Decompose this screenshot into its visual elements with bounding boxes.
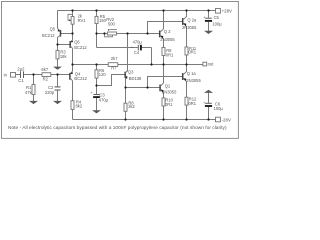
junction rail-R8	[124, 118, 126, 120]
svg-text:2k2: 2k2	[128, 104, 135, 109]
wire C3 top	[96, 86, 98, 95]
transistor Q5	[60, 30, 62, 37]
junction rail-C5	[207, 9, 209, 11]
svg-text:18k: 18k	[60, 54, 68, 59]
wire Q1a collector	[186, 65, 188, 73]
junction rail-Q2 collector	[162, 9, 164, 11]
junction R6-C3	[95, 84, 97, 86]
junction output node-R11/Q1a	[185, 63, 187, 65]
wire Q2a emitter to R11	[186, 26, 188, 47]
svg-text:Q 1a: Q 1a	[187, 71, 197, 76]
wire R5 bottom	[96, 24, 98, 34]
wire Q3 emitter to Q1 base	[126, 87, 161, 89]
wire C2 ground stem	[57, 91, 59, 102]
junction node C (RV2/Q3 collector/Q2 base)	[126, 32, 128, 34]
terminal +28V	[216, 9, 221, 14]
wire node to RV2	[97, 33, 108, 35]
ground C5	[204, 31, 213, 34]
wire R8 drop	[125, 88, 127, 104]
wire R1 ground stem	[33, 95, 35, 102]
svg-text:2N3055: 2N3055	[160, 37, 175, 42]
svg-text:470µ: 470µ	[133, 39, 143, 44]
svg-text:Q1: Q1	[165, 84, 171, 89]
junction output node-R9/Q1	[162, 63, 164, 65]
terminal In	[11, 73, 16, 78]
svg-text:Q6: Q6	[74, 40, 80, 45]
svg-text:0R1: 0R1	[189, 50, 197, 55]
resistor R1	[32, 85, 35, 95]
resistor R3	[56, 50, 59, 59]
transistor Q6	[69, 41, 71, 48]
svg-text:C1: C1	[18, 78, 24, 83]
wire R1 drop	[33, 75, 35, 85]
transistor Q2a	[182, 18, 184, 25]
wire Q5 emitter from rail	[57, 11, 59, 29]
wire RV1 top	[72, 11, 74, 17]
wire input line	[16, 74, 21, 76]
wire R12 bottom	[186, 105, 188, 120]
ground R1	[29, 101, 38, 104]
svg-text:BC212: BC212	[74, 45, 87, 50]
junction node B (R5/RV2/C4)	[95, 32, 97, 34]
wire -28V bottom rail	[73, 119, 216, 121]
wire C5 ground stem	[208, 22, 210, 31]
wire Q6 base line	[58, 44, 70, 46]
wire Q6 emitter	[72, 34, 74, 40]
junction rail-RV1	[71, 9, 73, 11]
wire R11 bottom	[186, 55, 188, 65]
resistor R6	[95, 70, 98, 78]
ground above C6	[204, 90, 213, 93]
svg-text:Q 2: Q 2	[164, 29, 171, 34]
capacitor C2	[55, 86, 61, 88]
junction node C-Q2a branch	[146, 32, 148, 34]
svg-text:2µ2: 2µ2	[17, 66, 25, 71]
svg-text:0R1: 0R1	[189, 101, 197, 106]
junction rail-R5	[95, 9, 97, 11]
junction node A (RV1/Q5/Q6)	[71, 32, 73, 34]
wire Q1a emitter to R12	[186, 81, 188, 97]
svg-text:0R1: 0R1	[165, 102, 173, 107]
wire Q1a base branch	[148, 77, 183, 88]
svg-text:BC212: BC212	[74, 76, 87, 81]
ground C2	[53, 101, 62, 104]
wire C4 left segment	[97, 47, 138, 49]
svg-text:+28V: +28V	[222, 9, 232, 14]
svg-text:C5: C5	[214, 15, 220, 20]
junction rail-C6	[207, 118, 209, 120]
junction Q5 collector-R3-Q6 base	[56, 43, 58, 45]
wire output line	[73, 64, 203, 66]
svg-text:Q5: Q5	[50, 26, 56, 31]
wire C2 drop	[57, 75, 59, 87]
wire R8 bottom	[125, 111, 127, 119]
svg-text:BC212: BC212	[42, 33, 55, 38]
svg-text:C4: C4	[134, 50, 140, 55]
resistor R4	[71, 101, 74, 110]
wire Q3 collector column	[127, 34, 129, 72]
resistor R11	[185, 47, 188, 55]
wire Q2 collector	[163, 11, 165, 30]
terminal out	[203, 62, 207, 66]
wire Q5 collector	[57, 37, 59, 44]
wire Q4 collector	[72, 81, 74, 101]
resistor R2	[42, 73, 51, 77]
svg-text:-28V: -28V	[222, 117, 231, 122]
resistor R7	[108, 63, 118, 67]
svg-text:500: 500	[108, 22, 116, 27]
svg-text:220p: 220p	[45, 90, 55, 95]
wire R9 bottom	[163, 56, 165, 65]
wire +28V top rail	[58, 10, 216, 12]
junction rail-R10	[162, 118, 164, 120]
capacitor C3	[93, 94, 99, 96]
svg-text:470µ: 470µ	[99, 98, 109, 103]
wire R6 dogleg to Q3 base	[97, 75, 125, 86]
wire Q3 emitter drop	[125, 78, 127, 88]
wire R5 top	[96, 11, 98, 17]
svg-text:out: out	[208, 62, 215, 67]
wire Q2a collector	[186, 11, 188, 18]
junction input-R1	[32, 73, 34, 75]
svg-text:0R1: 0R1	[166, 52, 174, 57]
svg-text:2N3055: 2N3055	[186, 78, 201, 83]
svg-text:R2: R2	[43, 77, 49, 82]
wire Q1 collector	[163, 65, 165, 84]
wire R3 bottom	[57, 59, 59, 67]
svg-text:2N3055: 2N3055	[162, 89, 177, 94]
resistor R9	[162, 48, 165, 56]
svg-text:8k2: 8k2	[76, 104, 83, 109]
border frame	[2, 2, 239, 139]
svg-text:100µ: 100µ	[212, 22, 222, 27]
terminal -28V	[216, 117, 221, 122]
potentiometer RV2	[107, 32, 116, 35]
wire R3 top	[57, 45, 59, 51]
capacitor C4	[137, 45, 139, 51]
wire Q2 emitter to R9	[163, 39, 165, 48]
transistor Q1a	[182, 73, 184, 80]
svg-text:6k7: 6k7	[41, 67, 48, 72]
transistor Q4	[69, 73, 71, 80]
wire R10 bottom	[163, 106, 165, 120]
resistor R12	[185, 97, 188, 105]
capacitor C1	[20, 71, 22, 78]
svg-text:Note - All electrolytic capaci: Note - All electrolytic capacitors bypas…	[8, 125, 227, 131]
svg-text:47k: 47k	[25, 90, 33, 95]
wire C5 top	[208, 11, 210, 18]
junction Q3 emitter-R8	[124, 86, 126, 88]
svg-text:100µ: 100µ	[214, 106, 224, 111]
wire C6 from ground	[208, 93, 210, 104]
wire C3 ground stem	[96, 98, 98, 111]
transistor Q2	[159, 31, 161, 38]
wire C6 bottom	[208, 107, 210, 120]
junction output line-R6	[95, 63, 97, 65]
junction output line-Q6/Q4 column	[71, 63, 73, 65]
resistor R8	[124, 103, 127, 111]
junction output line-C4 bootstrap	[150, 63, 152, 65]
svg-text:120: 120	[99, 72, 107, 77]
wire RV1 bottom to node	[72, 24, 74, 33]
junction rail-R12	[185, 118, 187, 120]
wire R6 drop	[96, 65, 98, 70]
wire bootstrap drop	[96, 34, 98, 48]
wire Q2a base branch	[148, 22, 183, 34]
wire C4 right segment	[141, 47, 151, 49]
resistor R5	[95, 16, 98, 23]
svg-text:R7: R7	[111, 65, 117, 70]
capacitor C5	[205, 17, 212, 19]
wire C4 corner down	[151, 48, 153, 65]
wire RV2 to Q2 base	[117, 33, 159, 35]
wire Q6 collector / Q4 emitter column	[72, 48, 74, 71]
ground C3	[92, 110, 101, 113]
svg-text:2N3055: 2N3055	[182, 25, 197, 30]
svg-text:BD138: BD138	[129, 76, 142, 81]
wire Q5 base stub	[61, 33, 73, 35]
resistor R10	[162, 98, 165, 106]
junction input-C2	[56, 73, 58, 75]
transistor Q1	[159, 85, 161, 92]
svg-text:2k7: 2k7	[111, 56, 118, 61]
wire R4 bottom	[72, 109, 74, 119]
transistor Q3	[124, 72, 126, 78]
junction RV2 wiper tap	[103, 32, 105, 34]
svg-text:Q3: Q3	[128, 69, 134, 74]
svg-text:Q 2a: Q 2a	[187, 18, 197, 23]
junction Q1/Q1a base branch	[146, 86, 148, 88]
junction rail-Q2a collector	[185, 9, 187, 11]
svg-text:C2: C2	[48, 85, 54, 90]
potentiometer RV1	[71, 17, 74, 25]
capacitor C6	[205, 102, 212, 104]
svg-text:RV1: RV1	[78, 18, 87, 23]
ground R3	[53, 67, 62, 70]
wire Q1 emitter to R10	[163, 92, 165, 98]
